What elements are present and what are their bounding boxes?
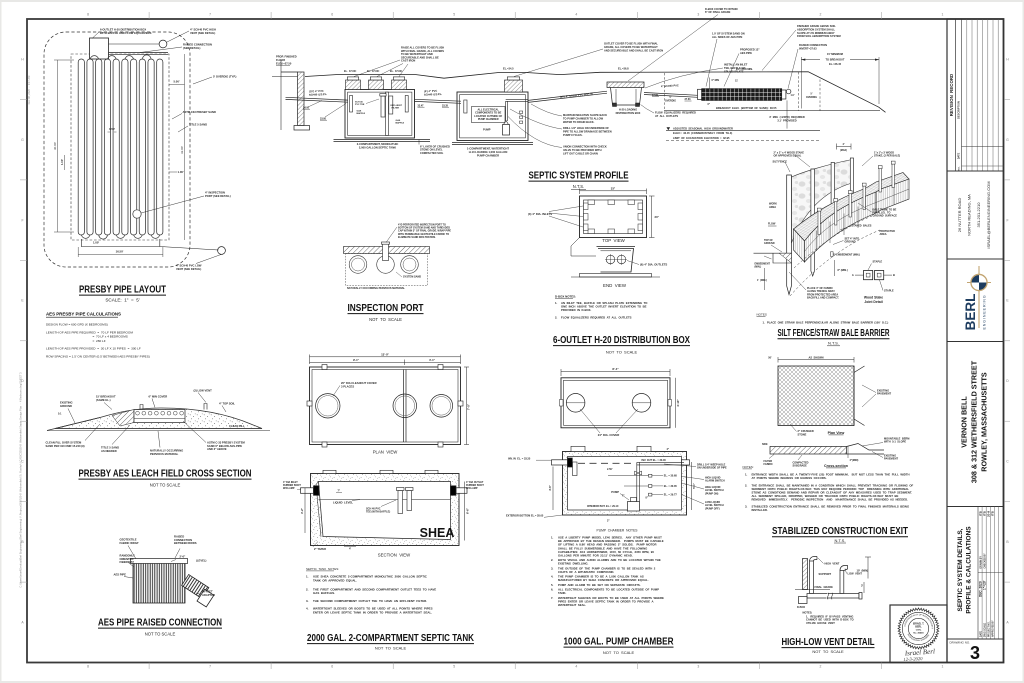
pump chamber riser xyxy=(505,80,523,92)
svg-text:PVC TEE: PVC TEE xyxy=(355,104,365,106)
svg-text:3: 3 xyxy=(697,665,699,669)
AES bed rectangle in mound xyxy=(134,410,185,423)
svg-text:EL. = 30.68: EL. = 30.68 xyxy=(664,475,678,478)
liquid level line xyxy=(319,499,451,501)
svg-text:N.T.S.: N.T.S. xyxy=(573,184,584,189)
svg-text:4.: 4. xyxy=(306,607,309,611)
svg-text:FINISHED GRADE ABOVE SOIL: FINISHED GRADE ABOVE SOIL xyxy=(797,24,836,28)
svg-text:STABILIZED CONSTRUCTION ENTR: STABILIZED CONSTRUCTION ENTRANCE SHALL B… xyxy=(752,504,910,508)
svg-text:23": 23" xyxy=(655,215,660,219)
pipe tank to pump chamber xyxy=(415,99,462,101)
inspection port: sand zone dashed xyxy=(346,254,428,286)
finished floor line xyxy=(281,71,298,73)
svg-text:G: G xyxy=(1006,138,1009,142)
d-box stub xyxy=(799,597,808,604)
pump chamber gravel base xyxy=(452,141,533,143)
pump chamber outer walls xyxy=(457,92,528,141)
clean fill hatched wedge xyxy=(112,410,134,427)
svg-text:SCALE: 1" = 5': SCALE: 1" = 5' xyxy=(105,298,139,303)
svg-text:REMOVED IMMEDIATELY. PER: REMOVED IMMEDIATELY. PERIODIC INSPECTION… xyxy=(752,498,909,502)
svg-text:DESCRIPTION: DESCRIPTION xyxy=(957,101,961,119)
svg-text:4.: 4. xyxy=(551,575,554,579)
svg-text:4'-6": 4'-6" xyxy=(548,484,552,491)
cleanout cover circles xyxy=(316,394,340,418)
svg-text:32.00': 32.00' xyxy=(180,146,184,155)
svg-text:ELIMINATE SAND INFILTRATION.: ELIMINATE SAND INFILTRATION. xyxy=(398,236,436,239)
svg-text:1.0': 1.0' xyxy=(791,94,795,97)
svg-text:33": 33" xyxy=(611,187,616,191)
svg-text:8": 8" xyxy=(646,496,648,499)
svg-text:12-3-2020: 12-3-2020 xyxy=(903,656,923,662)
high vent pipe xyxy=(810,561,814,594)
svg-text:OVERDIG: OVERDIG xyxy=(806,96,817,99)
svg-text:EL. 37.00±: EL. 37.00± xyxy=(390,70,403,73)
svg-text:(6) 4" DIA. OUTLETS: (6) 4" DIA. OUTLETS xyxy=(640,263,667,267)
AES bed (profile) xyxy=(698,89,702,99)
svg-text:REVISION RECORD: REVISION RECORD xyxy=(949,74,954,116)
svg-text:CLEAN FILL OVER SYSTEM: CLEAN FILL OVER SYSTEM xyxy=(46,441,83,445)
dimension: 1.00 right xyxy=(169,171,177,173)
svg-text:DRILL 1/4" HOLE ON UNDERSIDE O: DRILL 1/4" HOLE ON UNDERSIDE OF xyxy=(563,126,609,130)
svg-text:STONE: STONE xyxy=(798,433,807,437)
svg-text:DATE: DATE xyxy=(958,152,961,159)
d-box detail: end view xyxy=(598,249,634,273)
svg-text:FROM SOIL ABSORPTION SYSTEM: FROM SOIL ABSORPTION SYSTEM xyxy=(797,34,841,38)
svg-text:4'-10": 4'-10" xyxy=(676,399,680,407)
sewer pipe house to tank xyxy=(286,97,349,100)
svg-text:ALL SIDES OF AES PIPE: ALL SIDES OF AES PIPE xyxy=(712,35,743,39)
svg-text:AES PIPE: AES PIPE xyxy=(114,573,127,577)
svg-text:H-10 LOADING 1,000 GALLON: H-10 LOADING 1,000 GALLON xyxy=(469,150,508,154)
svg-text:SIDE: SIDE xyxy=(762,443,768,446)
svg-text:WITH BAFFLE AND FLOW EQUALIZER: WITH BAFFLE AND FLOW EQUALIZERS xyxy=(100,31,152,35)
svg-text:INSPECTION PORT: INSPECTION PORT xyxy=(348,303,424,314)
svg-text:BREAKOUT ELEV. (BOTTOM OF: BREAKOUT ELEV. (BOTTOM OF SAND): 36.55 xyxy=(716,106,777,110)
svg-text:1-COMPARTMENT, WATERTIGHT: 1-COMPARTMENT, WATERTIGHT xyxy=(467,146,510,150)
svg-text:5'-1": 5'-1" xyxy=(692,482,696,489)
svg-text:COMPACTED SOIL: COMPACTED SOIL xyxy=(420,151,444,155)
outlet pipe right xyxy=(682,460,690,465)
svg-text:ISRAEL@BERLENGINEERING.COM: ISRAEL@BERLENGINEERING.COM xyxy=(986,181,991,248)
svg-text:SECTION VIEW: SECTION VIEW xyxy=(378,553,411,558)
svg-text:PUMP: PUMP xyxy=(611,490,619,494)
inlet pipe left xyxy=(301,488,314,494)
svg-text:PERVIOUS MATERIAL: PERVIOUS MATERIAL xyxy=(150,452,179,456)
svg-text:AES PIPE RAISED CONNECTION: AES PIPE RAISED CONNECTION xyxy=(98,618,222,629)
svg-text:OUTLET COVER TO BE FLUSH WITH: OUTLET COVER TO BE FLUSH WITH FINAL xyxy=(604,42,658,46)
svg-text:AREA: AREA xyxy=(769,206,776,209)
svg-text:BETWEEN ROWS: BETWEEN ROWS xyxy=(174,541,197,545)
svg-text:5.00': 5.00' xyxy=(173,80,179,84)
svg-text:C:\Users\Israel\Desktop\Berl E: C:\Users\Israel\Desktop\Berl Engineering… xyxy=(19,372,23,588)
pump chamber detail: plan view xyxy=(561,378,670,428)
dimension: 1.00 left xyxy=(64,155,66,170)
svg-text:BAFFLE: BAFFLE xyxy=(396,122,405,125)
presby pipe layout: sand bed dashed rectangle xyxy=(71,54,169,240)
straw bale wall: front faces xyxy=(794,229,805,262)
svg-text:6": 6" xyxy=(708,103,710,106)
engineer stamp box xyxy=(890,605,947,663)
svg-text:2'-6": 2'-6" xyxy=(180,555,187,559)
svg-text:TEE (WITH BAFFLE): TEE (WITH BAFFLE) xyxy=(366,511,390,514)
svg-text:6" OF FINAL GRADE: 6" OF FINAL GRADE xyxy=(705,10,731,14)
svg-text:CAST IRON: CAST IRON xyxy=(401,59,415,63)
svg-text:3 PLACES: 3 PLACES xyxy=(341,384,354,388)
vent stubs on mound xyxy=(140,405,143,410)
svg-text:(PUMP OFF): (PUMP OFF) xyxy=(705,507,720,510)
svg-text:17.80: 17.80 xyxy=(652,94,659,97)
mound base line xyxy=(55,428,262,430)
pump chamber detail: section view xyxy=(563,452,687,516)
svg-text:PROP. FINISHED: PROP. FINISHED xyxy=(276,55,297,59)
tank gravel base xyxy=(334,138,431,140)
svg-text:AT POINTS WHERE INGRESS OR: AT POINTS WHERE INGRESS OR EGRESS OCCURS… xyxy=(752,476,827,480)
svg-text:(2) LOW VENT: (2) LOW VENT xyxy=(194,389,213,393)
groundwater line xyxy=(667,127,671,130)
tank inlet tee xyxy=(350,96,353,113)
building footing xyxy=(294,126,310,131)
sheet title block xyxy=(947,507,1004,640)
svg-text:EXTERIOR BOTTOM EL.= 28.65: EXTERIOR BOTTOM EL.= 28.65 xyxy=(506,514,544,517)
svg-text:DRAWING NO.: DRAWING NO. xyxy=(950,641,971,645)
svg-text:6" MIN COVER: 6" MIN COVER xyxy=(149,395,168,399)
svg-text:NOT TO SCALE: NOT TO SCALE xyxy=(145,632,176,637)
svg-text:RAISED CONNECTION: RAISED CONNECTION xyxy=(183,43,212,47)
svg-text:1. PLACE ONE STRAW BALE: 1. PLACE ONE STRAW BALE PERPENDICULAR AL… xyxy=(763,321,889,325)
svg-text:2000 GAL. 2-COMPARTMENT SEPTIC: 2000 GAL. 2-COMPARTMENT SEPTIC TANK xyxy=(307,632,474,644)
horizontal pipe to d-box xyxy=(807,594,859,599)
svg-text:AND SECUREABLE AND SHALL BE CA: AND SECUREABLE AND SHALL BE CAST IRON xyxy=(604,48,663,52)
svg-text:D-BOX COVER TO WITHIN: D-BOX COVER TO WITHIN xyxy=(705,7,738,11)
4ft max dim xyxy=(837,146,852,148)
svg-text:PLAN VIEW: PLAN VIEW xyxy=(373,450,399,455)
svg-text:WITH 5:1 SLOPE: WITH 5:1 SLOPE xyxy=(884,440,906,444)
svg-text:HIGH VENT: HIGH VENT xyxy=(825,561,840,565)
dashed sand-extent verticals xyxy=(663,73,665,111)
drawing number box xyxy=(947,639,1004,663)
svg-text:SAND PER 310 CMR 15.240 (9): SAND PER 310 CMR 15.240 (9) xyxy=(46,444,85,448)
svg-text:INSTALL AN INLET: INSTALL AN INLET xyxy=(724,63,748,67)
svg-text:(SAME EL.): (SAME EL.) xyxy=(96,398,111,402)
plan dims xyxy=(310,356,461,358)
svg-text:2-COMPARTMENT, MONOLITHIC: 2-COMPARTMENT, MONOLITHIC xyxy=(357,142,399,146)
outlet circles with cross xyxy=(606,255,615,264)
professional engineer seal xyxy=(898,608,939,649)
tank center divider xyxy=(386,92,389,135)
svg-text:STAKE, (2 PER BALE): STAKE, (2 PER BALE) xyxy=(874,155,900,158)
svg-text:PROVIDED IN D-BOX.: PROVIDED IN D-BOX. xyxy=(561,308,592,312)
svg-text:DESIGN FLOW = 600 GPD (X BEDRO: DESIGN FLOW = 600 GPD (X BEDROOMS) xyxy=(46,323,108,327)
title block outer strip xyxy=(947,19,1004,663)
svg-text:UNION CONNECTION WITH CHECK: UNION CONNECTION WITH CHECK xyxy=(563,145,607,149)
svg-text:(3) 4" DIA. INLETS: (3) 4" DIA. INLETS xyxy=(528,212,552,216)
svg-text:26 NUTTER ROAD: 26 NUTTER ROAD xyxy=(957,198,962,233)
effluent filter tees xyxy=(381,96,385,117)
raised connection: AES pipe body with rib hatch xyxy=(133,561,185,603)
silt fence: fabric panel xyxy=(791,160,852,244)
dashed flow-line arcs xyxy=(794,216,872,268)
final grade line xyxy=(795,589,830,591)
svg-text:W/CLAMP: W/CLAMP xyxy=(283,487,295,490)
svg-text:LIFT OUT CABLE OR CHAIN: LIFT OUT CABLE OR CHAIN xyxy=(563,152,598,156)
project name block xyxy=(947,342,1004,507)
grade hatch left of wall xyxy=(272,76,298,78)
profile: building wall xyxy=(298,72,305,126)
profile: finished grade line xyxy=(305,72,886,113)
tank detail: section view xyxy=(311,474,460,546)
svg-text:50': 50' xyxy=(768,356,772,359)
svg-text:D-BOX: D-BOX xyxy=(797,606,805,609)
low vent pipe (candy cane) xyxy=(840,571,844,594)
svg-text:6'-6": 6'-6" xyxy=(466,507,470,514)
svg-text:1: 1 xyxy=(942,13,944,17)
svg-text:GROUND: GROUND xyxy=(845,241,856,244)
svg-text:1' (MIN.): 1' (MIN.) xyxy=(757,279,767,282)
compartment divider (plan) xyxy=(403,370,405,443)
vent dims xyxy=(867,557,869,579)
svg-text:Dec 08, 2020 - 9:17 AM: Dec 08, 2020 - 9:17 AM xyxy=(27,76,31,105)
svg-text:TANK OR APPROVED EQUAL.: TANK OR APPROVED EQUAL. xyxy=(313,578,357,582)
svg-text:FINAL GRADE: FINAL GRADE xyxy=(815,585,834,589)
svg-text:FLOW EQUALIZERS REQUIRED AT: FLOW EQUALIZERS REQUIRED AT ALL OUTLETS xyxy=(561,316,632,320)
svg-text:NOTES: NOTES xyxy=(757,313,767,317)
svg-text:7: 7 xyxy=(209,13,211,17)
svg-text:SCH40 @2.0%: SCH40 @2.0% xyxy=(309,92,327,97)
svg-text:SCH40 @2.0%: SCH40 @2.0% xyxy=(424,92,442,97)
svg-text:AND 3" ABOVE: AND 3" ABOVE xyxy=(207,447,227,451)
inlet pipe left xyxy=(552,460,568,465)
svg-text:ON UNDERSIDE OF PIPE: ON UNDERSIDE OF PIPE xyxy=(697,467,727,470)
svg-text:3: 3 xyxy=(697,13,699,17)
svg-text:PUMP CHAMBER NOTES: PUMP CHAMBER NOTES xyxy=(597,528,639,532)
svg-text:ALL ELECTRICAL COMPONENTS T: ALL ELECTRICAL COMPONENTS TO BE LOCATED … xyxy=(558,588,659,592)
svg-text:CLEAN FILL: CLEAN FILL xyxy=(229,424,245,428)
svg-text:INV. IN EL. = 33.35: INV. IN EL. = 33.35 xyxy=(508,457,531,460)
svg-text:WATER TO DRAIN BACK.: WATER TO DRAIN BACK. xyxy=(563,120,595,124)
svg-text:33.47: 33.47 xyxy=(418,104,425,107)
svg-text:5: 5 xyxy=(453,13,455,17)
svg-text:SEPTIC SYSTEM DETAILS,: SEPTIC SYSTEM DETAILS, xyxy=(957,528,964,611)
svg-text:(PUMP ON): (PUMP ON) xyxy=(705,492,718,495)
svg-text:MAINTAIN NEGATIVE SLOPE BACK: MAINTAIN NEGATIVE SLOPE BACK xyxy=(563,113,607,117)
pipe top manifold arcs xyxy=(90,56,99,60)
dim 33" xyxy=(580,190,647,192)
svg-text:1"=20': 1"=20' xyxy=(982,580,986,590)
construction exit plan: gravel area xyxy=(778,366,854,426)
svg-text:LENGTH OF AES PIPE PROVIDED =: LENGTH OF AES PIPE PROVIDED = 30 LF X 10… xyxy=(46,347,141,351)
svg-text:AREA: AREA xyxy=(880,233,887,236)
svg-text:PUMP: PUMP xyxy=(483,128,491,132)
svg-text:1.: 1. xyxy=(551,536,554,540)
svg-text:No. 40469: No. 40469 xyxy=(913,632,924,635)
svg-text:6" EMBEDMENT (MIN.): 6" EMBEDMENT (MIN.) xyxy=(833,253,860,256)
svg-text:LIQUID LEVEL: LIQUID LEVEL xyxy=(333,501,353,505)
pipe d-box to AES bed xyxy=(644,93,698,96)
svg-text:Plan View: Plan View xyxy=(828,431,845,435)
svg-text:CIVIL: CIVIL xyxy=(916,630,922,632)
svg-text:EL.=34.5: EL.=34.5 xyxy=(503,67,514,71)
svg-text:4'-2": 4'-2" xyxy=(300,507,304,514)
svg-text:MANUFACTURED BY SHEA CONCRE: MANUFACTURED BY SHEA CONCRETE OR APPROVE… xyxy=(558,578,649,582)
dimension: 5.00 right top xyxy=(169,84,185,86)
svg-text:4"(MIN): 4"(MIN) xyxy=(850,459,859,462)
svg-text:NATURALLY OCCURRING PERVIOUS M: NATURALLY OCCURRING PERVIOUS MATERIAL xyxy=(347,287,405,290)
center tees (section) xyxy=(398,491,403,514)
svg-text:AS SHOWN: AS SHOWN xyxy=(809,355,824,359)
svg-text:THE SECOND COMPARTMENT OUTL: THE SECOND COMPARTMENT OUTLET TEE TO HAV… xyxy=(313,599,427,603)
svg-text:EL.=36.8: EL.=36.8 xyxy=(618,66,629,70)
small dims near bed xyxy=(709,78,711,89)
svg-text:8: 8 xyxy=(87,13,89,17)
septic tank outer walls xyxy=(345,90,415,139)
svg-text:1.: 1. xyxy=(306,575,309,579)
svg-text:2,000 GALLON SEPTIC TANK: 2,000 GALLON SEPTIC TANK xyxy=(359,145,396,149)
svg-text:33.35: 33.35 xyxy=(442,104,449,107)
section risers on top xyxy=(323,470,336,473)
svg-text:2: 2 xyxy=(819,665,821,669)
revision record table xyxy=(947,19,1004,171)
svg-text:BACKFILL AND COMPACT.: BACKFILL AND COMPACT. xyxy=(807,297,839,300)
svg-text:1.00': 1.00' xyxy=(60,159,64,165)
svg-text:PAVEMENT: PAVEMENT xyxy=(877,392,891,396)
svg-text:5: 5 xyxy=(453,665,455,669)
vent detail: wall xyxy=(803,559,808,590)
svg-text:PROFILE & CALCULATIONS: PROFILE & CALCULATIONS xyxy=(966,526,973,614)
svg-text:3: 3 xyxy=(970,643,980,663)
svg-text:30.00': 30.00' xyxy=(53,142,57,151)
force main to d-box xyxy=(528,91,607,100)
svg-text:SYSTEM SAND: SYSTEM SAND xyxy=(403,276,421,279)
svg-text:SUPPORT: SUPPORT xyxy=(819,572,832,576)
svg-text:VALVE TO BE PROVIDED WITH: VALVE TO BE PROVIDED WITH xyxy=(563,148,602,152)
header pipe from d-box xyxy=(109,52,169,54)
bale mid twine lines xyxy=(805,189,910,252)
svg-text:INV. OUT EL. = 33.00: INV. OUT EL. = 33.00 xyxy=(642,459,667,462)
discharge pipe and check valve xyxy=(636,462,638,508)
svg-text:BAFFLE: BAFFLE xyxy=(357,112,366,115)
svg-text:6: 6 xyxy=(331,665,333,669)
svg-text:H-20 LOADING: H-20 LOADING xyxy=(619,107,637,111)
section dims xyxy=(552,467,554,511)
svg-text:33.80: 33.80 xyxy=(320,117,327,120)
svg-text:2.50': 2.50' xyxy=(607,468,613,471)
svg-text:4" SCH40 PVC LOW: 4" SCH40 PVC LOW xyxy=(176,264,202,268)
svg-text:7": 7" xyxy=(622,494,624,497)
svg-text:16.50': 16.50' xyxy=(116,250,124,254)
svg-text:DWG SCALE: DWG SCALE xyxy=(983,622,986,637)
svg-text:OVERDIG: OVERDIG xyxy=(665,99,676,102)
svg-text:FLOW EQUALIZERS REQUIRED: FLOW EQUALIZERS REQUIRED xyxy=(655,111,696,115)
svg-text:8" (MIN.): 8" (MIN.) xyxy=(838,269,848,272)
svg-text:VERNON BELL: VERNON BELL xyxy=(960,396,969,448)
svg-text:Cross-section: Cross-section xyxy=(824,464,848,468)
svg-text:NO.: NO. xyxy=(959,166,961,170)
svg-text:AS NEEDED: AS NEEDED xyxy=(101,449,117,453)
svg-text:GALLONS PER MINUTE FOR 23.: GALLONS PER MINUTE FOR 23.11' DYNAMIC HE… xyxy=(558,553,633,557)
svg-text:PRESBY PIPE LAYOUT: PRESBY PIPE LAYOUT xyxy=(79,285,166,296)
svg-text:VENT (SEE DETAIL): VENT (SEE DETAIL) xyxy=(176,267,201,271)
svg-text:9'-1": 9'-1" xyxy=(353,358,360,362)
svg-text:(LEVEL): (LEVEL) xyxy=(196,559,207,563)
svg-text:AES PRESBY PIPE CALCULATIONS: AES PRESBY PIPE CALCULATIONS xyxy=(46,312,121,317)
svg-text:FLOW: FLOW xyxy=(768,223,776,226)
svg-text:GRADE, ALL COVERS TO BE WATERT: GRADE, ALL COVERS TO BE WATERTIGHT xyxy=(604,45,658,49)
svg-text:PORT (SEE DETAIL): PORT (SEE DETAIL) xyxy=(205,194,231,198)
svg-text:6" MIN: 6" MIN xyxy=(712,79,720,82)
svg-text:NOT TO SCALE: NOT TO SCALE xyxy=(603,650,635,655)
svg-text:NOTES:: NOTES: xyxy=(743,465,754,469)
svg-text:PAVEMENT: PAVEMENT xyxy=(884,457,898,461)
BERL engineering logo block xyxy=(947,259,1004,342)
knockout squares xyxy=(588,200,595,205)
svg-text:5' OVERDIG (TYP.): 5' OVERDIG (TYP.) xyxy=(213,75,237,79)
svg-text:4" SCH40 PVC HIGH: 4" SCH40 PVC HIGH xyxy=(190,28,216,32)
dimension: 32.00 right xyxy=(184,54,186,240)
bed pipe circles xyxy=(136,411,140,415)
dimension: 16.50 bottom xyxy=(77,247,79,257)
low vent circle xyxy=(218,247,226,255)
float switches on wall xyxy=(649,474,652,477)
leader to end view xyxy=(571,238,596,257)
svg-text:PUMP CHAMBER: PUMP CHAMBER xyxy=(478,118,499,121)
risers on top xyxy=(571,446,585,451)
svg-text:STAKED BALES: STAKED BALES xyxy=(852,225,872,228)
svg-text:AES PIPE: AES PIPE xyxy=(740,51,752,55)
svg-text:Joint Detail: Joint Detail xyxy=(864,300,882,304)
svg-text:NOT TO SCALE: NOT TO SCALE xyxy=(369,317,402,322)
svg-text:G: G xyxy=(21,138,24,142)
svg-text:ELEV.=27.50: ELEV.=27.50 xyxy=(276,62,292,66)
bale stakes xyxy=(818,211,820,235)
svg-text:BERL: BERL xyxy=(963,294,978,331)
svg-text:37.63: 37.63 xyxy=(685,98,692,101)
low vent connector line xyxy=(81,239,160,247)
svg-text:NOT TO SCALE: NOT TO SCALE xyxy=(606,350,638,355)
svg-text:0.50': 0.50' xyxy=(109,127,115,131)
outlet pipe right xyxy=(456,488,467,494)
plan notches xyxy=(560,400,564,407)
svg-text:1.00': 1.00' xyxy=(93,241,99,245)
svg-text:ADAPTER: ADAPTER xyxy=(202,593,215,597)
svg-text:PIPE TO ALLOW DRAINAGE BETWEEN: PIPE TO ALLOW DRAINAGE BETWEEN xyxy=(563,130,612,134)
address block xyxy=(947,171,1004,259)
svg-text:4: 4 xyxy=(575,13,577,17)
svg-text:1: 1 xyxy=(942,665,944,669)
plan dim xyxy=(778,359,854,361)
svg-text:TANK.: TANK. xyxy=(558,591,567,595)
svg-text:EL. = 30.35: EL. = 30.35 xyxy=(664,485,678,488)
presby distribution d-box xyxy=(90,38,109,59)
svg-text:8: 8 xyxy=(87,665,89,669)
svg-text:SUBGRADE: SUBGRADE xyxy=(793,465,808,468)
svg-text:= 280 LF: = 280 LF xyxy=(93,339,106,343)
svg-text:351-201-2210: 351-201-2210 xyxy=(976,202,981,228)
svg-text:6: 6 xyxy=(331,13,333,17)
dimension: 30.00 left xyxy=(57,60,59,232)
svg-text:10' (MIN): 10' (MIN) xyxy=(857,569,869,573)
svg-text:GROUND: GROUND xyxy=(764,242,775,245)
svg-text:ITB: ITB xyxy=(991,510,995,516)
electrical note box xyxy=(472,107,506,123)
svg-text:UTILIZE HOUSE VENT: UTILIZE HOUSE VENT xyxy=(806,621,835,625)
svg-text:F: F xyxy=(1006,218,1008,222)
inspection port: ground hatch band xyxy=(344,247,430,254)
svg-text:TITLE 5 SAND: TITLE 5 SAND xyxy=(189,123,207,127)
svg-text:SCH 40: SCH 40 xyxy=(355,100,363,103)
svg-text:AT ALL OUTLETS: AT ALL OUTLETS xyxy=(655,114,678,118)
svg-text:NOT TO SCALE: NOT TO SCALE xyxy=(375,646,407,651)
svg-text:RAISED CONNECTION: RAISED CONNECTION xyxy=(799,43,827,47)
